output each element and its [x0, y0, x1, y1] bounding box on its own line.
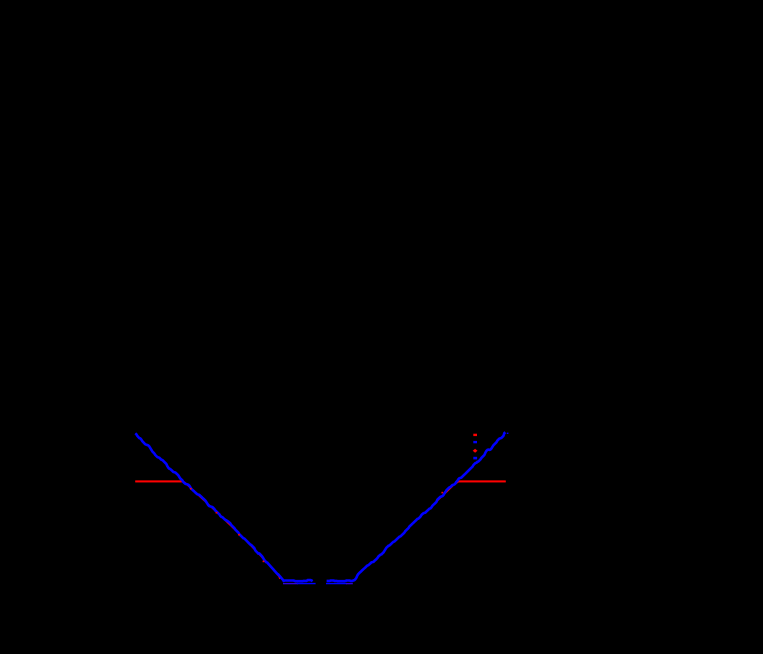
vertical dotted marker: red diamond [473, 449, 478, 453]
blue noisy curve: right plateau and right arm [327, 432, 506, 581]
red capped reference curve (left segment) [135, 481, 280, 578]
vertical dotted marker: red dash 1 [473, 434, 477, 436]
red speck on right arm edge [441, 492, 443, 494]
red cap level line (right) [459, 480, 506, 482]
red capped reference curve (right segment) [437, 481, 506, 501]
red cap level line (left) [135, 480, 183, 482]
red speck on left arm edge 3 [238, 534, 240, 536]
red speck on left arm edge 1 [190, 488, 192, 490]
red speck on left arm edge 2 [216, 512, 218, 514]
red speck on left arm edge 4 [263, 561, 265, 563]
stray blue dot at right end of curve [507, 433, 509, 434]
vertical dotted marker: blue dash 2 [473, 457, 477, 460]
thin blue floor line (left of gap) [297, 583, 316, 585]
blue noisy curve: left arm and left plateau [135, 433, 312, 581]
thin blue floor line (right end, violet-tinged) [346, 583, 353, 585]
thin blue floor line (left of gap, violet-tinged start) [283, 583, 298, 585]
vertical dotted marker: blue dash 1 [473, 441, 477, 443]
thin blue floor line (right of gap) [326, 583, 347, 585]
